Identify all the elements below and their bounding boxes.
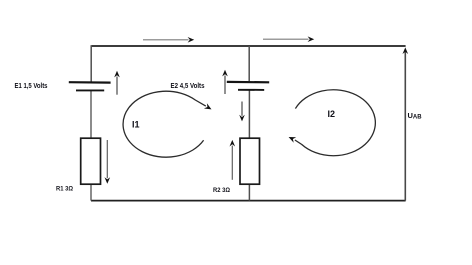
svg-text:R1 3Ω: R1 3Ω (56, 185, 74, 192)
svg-text:E2 4,5 Volts: E2 4,5 Volts (171, 83, 205, 90)
svg-text:I2: I2 (328, 109, 336, 119)
svg-text:I1: I1 (132, 120, 140, 130)
svg-text:R2 3Ω: R2 3Ω (213, 187, 231, 194)
svg-text:E1 1,5 Volts: E1 1,5 Volts (15, 83, 48, 90)
